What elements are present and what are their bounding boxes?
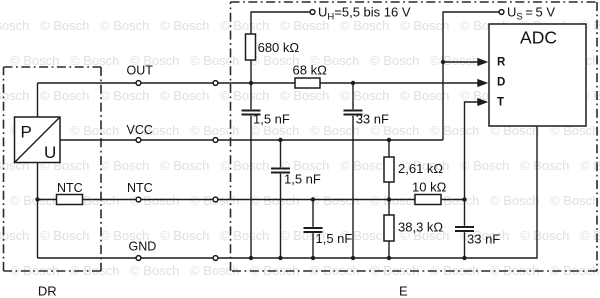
svg-text:© Bosch: © Bosch [40,228,89,243]
svg-text:33 nF: 33 nF [467,232,500,247]
svg-text:© Bosch: © Bosch [400,18,449,33]
svg-text:38,3 kΩ: 38,3 kΩ [398,220,443,235]
svg-text:33 nF: 33 nF [356,112,389,127]
terminal circle GND a [136,256,141,261]
svg-text:© Bosch: © Bosch [370,193,419,208]
wire UH supply rail [251,12,310,34]
node C3/GND [278,256,282,260]
wire NTC row middle [83,199,416,201]
node C3/VCC [278,138,282,142]
wire VCC row [60,139,443,141]
terminal US [499,10,504,15]
svg-text:1,5 nF: 1,5 nF [253,112,290,127]
svg-text:680 kΩ: 680 kΩ [258,40,300,55]
node T branch/NTC [462,197,466,201]
svg-text:© Bosch: © Bosch [160,18,209,33]
svg-text:© Bosch: © Bosch [310,193,359,208]
terminal circle GND b [213,256,218,261]
capacitor C1 1,5nF (OUT to GND) [242,83,261,258]
wire R pin [443,61,479,63]
svg-text:© Bosch: © Bosch [430,53,479,68]
capacitor C3 1,5nF (VCC to GND) [271,140,290,258]
svg-text:T: T [497,97,504,109]
svg-text:© Bosch: © Bosch [190,123,239,138]
svg-text:OUT: OUT [127,64,154,78]
arrow into D pin [477,79,488,87]
svg-text:ADC: ADC [520,28,557,48]
terminal UH [310,10,315,15]
terminal circle NTC b [213,197,218,202]
resistor R4 10k (NTC row) [415,195,441,205]
box E (ECU module, dash-dot border) [231,2,598,271]
wire OUT row left of 68k [38,82,296,84]
svg-text:2,61 kΩ: 2,61 kΩ [398,161,443,176]
node D/33nF junction [351,81,355,85]
node R3/VCC [387,138,391,142]
svg-text:© Bosch: © Bosch [220,158,269,173]
svg-text:P: P [21,123,32,142]
svg-text:© Bosch: © Bosch [40,18,89,33]
svg-text:© Bosch: © Bosch [100,18,149,33]
svg-text:© Bosch: © Bosch [130,263,179,278]
svg-text:© Bosch: © Bosch [0,228,29,243]
node OUT/680k junction [249,81,253,85]
terminal circle NTC a [136,197,141,202]
capacitor C5 33nF (T node to GND) [455,200,474,259]
svg-text:68 kΩ: 68 kΩ [293,63,328,78]
svg-text:© Bosch: © Bosch [250,193,299,208]
svg-text:R: R [497,57,506,69]
svg-text:© Bosch: © Bosch [70,123,119,138]
arrow into R pin [477,58,488,66]
svg-text:NTC: NTC [127,181,153,195]
svg-text:1,5 nF: 1,5 nF [316,231,353,246]
IC ADC box [489,24,586,126]
wire 680k to OUT node [250,60,252,83]
node R3/R5/NTC junction [387,197,391,201]
svg-text:© Bosch: © Bosch [40,88,89,103]
terminal circle OUT b [213,81,218,86]
wire sensor bottom to GND row [37,163,39,259]
svg-text:© Bosch: © Bosch [0,88,29,103]
svg-text:DR: DR [38,284,57,298]
node C4/GND [311,256,315,260]
svg-text:© Bosch: © Bosch [160,158,209,173]
resistor R1 680k [246,34,256,60]
svg-text:© Bosch: © Bosch [340,88,389,103]
resistor R5 38,3k (NTC node to GND) [384,215,394,258]
node R5/GND [387,256,391,260]
svg-text:1,5 nF: 1,5 nF [284,172,321,187]
node NTC branch [35,197,39,201]
sensor U1 P/U box [15,117,61,163]
wire NTC row left [38,199,57,201]
wire US supply rail [443,12,499,140]
svg-text:© Bosch: © Bosch [520,158,569,173]
svg-text:© Bosch: © Bosch [370,53,419,68]
svg-text:© Bosch: © Bosch [220,228,269,243]
svg-text:© Bosch: © Bosch [280,88,329,103]
svg-text:VCC: VCC [127,123,153,137]
svg-text:© Bosch: © Bosch [520,228,569,243]
node C5/GND [462,256,466,260]
resistor NTC [57,195,83,205]
svg-text:© Bosch: © Bosch [430,123,479,138]
resistor R3 2,61k (VCC to NTC node) [384,140,394,215]
terminal circle VCC b [213,138,218,143]
svg-text:© Bosch: © Bosch [340,18,389,33]
terminal circle VCC a [136,138,141,143]
svg-text:NTC: NTC [57,181,83,195]
capacitor C2 33nF (D node to GND) [344,83,363,258]
svg-text:© Bosch: © Bosch [220,18,269,33]
node C4/NTC [311,197,315,201]
svg-text:© Bosch: © Bosch [280,18,329,33]
wire OUT row right of 68k to D pin [320,82,479,84]
svg-text:© Bosch: © Bosch [490,263,539,278]
svg-text:© Bosch: © Bosch [340,158,389,173]
svg-text:© Bosch: © Bosch [400,88,449,103]
svg-text:U: U [44,143,56,162]
svg-text:© Bosch: © Bosch [490,193,539,208]
wire 10k to T branch [441,199,465,201]
svg-text:© Bosch: © Bosch [10,193,59,208]
svg-text:© Bosch: © Bosch [190,263,239,278]
svg-text:10 kΩ: 10 kΩ [412,180,447,195]
box DR (sensor module, dash-dot border) [4,67,102,271]
svg-text:© Bosch: © Bosch [70,53,119,68]
svg-text:© Bosch: © Bosch [310,123,359,138]
wire OUT vertical from sensor top [37,83,39,117]
svg-text:GND: GND [129,240,157,254]
svg-text:© Bosch: © Bosch [100,158,149,173]
node C2/GND [351,256,355,260]
svg-text:© Bosch: © Bosch [460,158,509,173]
arrow into T pin [477,98,488,106]
wire GND row [38,126,538,258]
wire T branch vertical + T pin [465,102,480,200]
svg-text:© Bosch: © Bosch [220,88,269,103]
svg-text:© Bosch: © Bosch [0,18,29,33]
svg-text:© Bosch: © Bosch [160,228,209,243]
svg-text:© Bosch: © Bosch [550,193,599,208]
svg-text:© Bosch: © Bosch [10,53,59,68]
svg-text:E: E [399,284,408,298]
node R pin branch [441,60,445,64]
svg-text:© Bosch: © Bosch [100,88,149,103]
svg-text:© Bosch: © Bosch [160,88,209,103]
capacitor C4 1,5nF (NTC to GND) [304,200,323,259]
resistor R2 68k [295,78,320,88]
terminal circle OUT a [136,81,141,86]
svg-text:D: D [497,77,505,89]
node C1/GND [249,256,253,260]
svg-text:© Bosch: © Bosch [190,53,239,68]
